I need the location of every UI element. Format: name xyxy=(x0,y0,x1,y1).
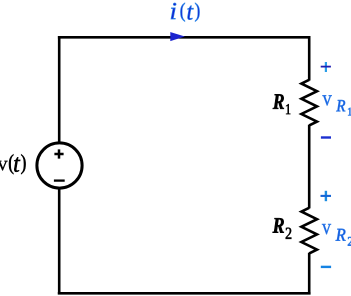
label R1 xyxy=(273,94,291,114)
resistor R1 zigzag xyxy=(301,80,317,126)
polarity plus of vR1 xyxy=(325,62,327,72)
voltage source plus sign xyxy=(54,149,63,158)
label R2 xyxy=(273,218,292,239)
voltage label vR2 xyxy=(322,224,351,246)
wire: left vertical upper segment xyxy=(58,36,61,143)
voltage source V circle xyxy=(37,143,82,188)
resistor R2 zigzag xyxy=(301,208,317,254)
wire: right vertical upper segment xyxy=(308,36,311,81)
wire: right vertical lower segment xyxy=(308,253,311,295)
current arrow xyxy=(171,33,183,41)
wire: right vertical middle segment xyxy=(308,125,311,209)
wire: bottom horizontal xyxy=(58,292,311,295)
source label v(t) xyxy=(0,154,26,174)
polarity minus of vR1 xyxy=(321,136,331,138)
current label i(t) xyxy=(171,3,200,22)
wire: left vertical lower segment xyxy=(58,188,61,294)
wire: top horizontal xyxy=(58,36,311,39)
polarity minus of vR2 xyxy=(321,266,331,268)
polarity plus of vR2 xyxy=(325,191,327,201)
voltage source minus sign xyxy=(54,179,65,181)
voltage label vR1 xyxy=(323,95,351,115)
